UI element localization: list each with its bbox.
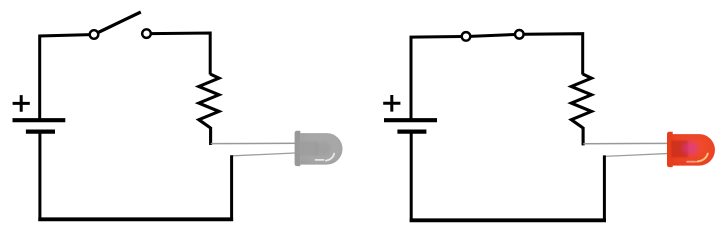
wire: resistor R1 bottom stub to LED D1 anode node	[209, 127, 212, 145]
battery B1 plus sign	[13, 95, 30, 112]
wire: LED D1 cathode down to bottom rail	[230, 155, 233, 221]
resistor R2	[571, 74, 591, 128]
switch S1 open lever	[94, 12, 141, 35]
LED D1 anode lead	[211, 142, 303, 144]
wire: switch S2 to resistor R2 top	[524, 34, 583, 75]
LED D2 anode lead	[583, 142, 675, 144]
LED D2 cathode lead	[604, 153, 675, 156]
wire: battery B2 negative terminal down to bottom rail	[410, 132, 413, 222]
wire: switch S1 to resistor R1 top	[151, 33, 211, 75]
switch S2 left terminal	[462, 32, 471, 41]
wire: bottom return rail of left circuit	[38, 217, 233, 221]
battery B2 negative plate	[397, 130, 426, 134]
switch S1 right terminal	[142, 29, 151, 38]
wire: battery B1 positive up and over to switch S1	[40, 35, 91, 119]
switch S2 right terminal	[515, 30, 524, 39]
wire: LED D2 cathode down to bottom rail	[603, 155, 606, 222]
LED D1 cathode lead	[232, 153, 303, 156]
LED D1 (gray, off)	[295, 131, 343, 166]
wire: battery B1 negative terminal down to bottom rail	[38, 132, 41, 221]
battery B2 plus sign	[383, 95, 400, 112]
battery B2 positive plate	[384, 118, 437, 122]
wire: battery B2 positive up and over to switch S2	[411, 37, 462, 120]
switch S2 closed lever	[464, 34, 522, 36]
wire: resistor R2 bottom stub to LED D2 anode node	[582, 127, 585, 145]
resistor R1	[199, 74, 219, 128]
LED D2 (red, lit)	[667, 132, 715, 167]
wire: bottom return rail of right circuit	[410, 218, 606, 222]
switch S1 left terminal	[90, 30, 99, 39]
battery B1 positive plate	[13, 118, 66, 122]
battery B1 negative plate	[26, 130, 55, 134]
